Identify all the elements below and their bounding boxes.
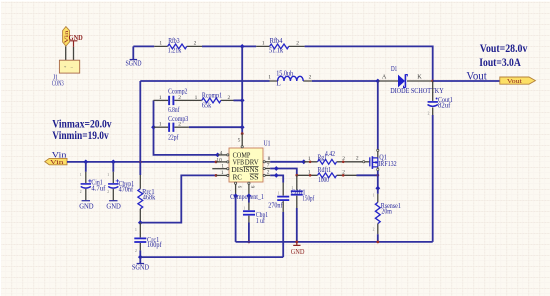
wire comp rail: [241, 46, 243, 133]
svg-text:Rcomp1: Rcomp1: [202, 91, 223, 99]
node Cin1 junction: [83, 159, 88, 164]
svg-text:1: 1: [262, 41, 265, 47]
node RC wire end: [215, 174, 218, 177]
svg-text:2: 2: [356, 155, 359, 161]
node Rdft1 left junction: [295, 174, 298, 177]
pin 8 (DRV): [263, 161, 265, 163]
wire switch-node row: [140, 80, 269, 82]
wire Rfb4 to Vout rail: [305, 46, 433, 81]
wire SGND row bottom: [140, 256, 283, 258]
capacitor Cout1 (electrolytic): [428, 81, 454, 115]
wire pin2 to Css: [270, 175, 283, 182]
wire Rfb3 to Rfb4: [202, 45, 256, 47]
power port GND at J1 (red): [69, 33, 84, 47]
svg-text:DIODE SCHOTTKY: DIODE SCHOTTKY: [390, 87, 444, 95]
connector J1 pins: [66, 46, 74, 60]
port Vout: [500, 77, 536, 85]
svg-text:Vin: Vin: [50, 160, 64, 166]
svg-text:GND: GND: [79, 201, 94, 210]
svg-text:2: 2: [178, 95, 181, 101]
wire RC pin run: [140, 175, 216, 222]
svg-text:RC: RC: [233, 172, 242, 181]
capacitor Cbyp1 470nf: [108, 162, 134, 200]
ground GND under Cin1: [79, 201, 94, 211]
wire Rdft1 to source rail: [357, 174, 378, 176]
capacitor Cbp1 1uf: [243, 196, 268, 242]
svg-text:4.7uf: 4.7uf: [91, 184, 106, 192]
node rail row2 junction: [240, 125, 245, 130]
tiny pin marks: [80, 112, 430, 253]
power port SGND (top left): [126, 46, 142, 67]
svg-text:CON3: CON3: [52, 80, 64, 88]
svg-text:468k: 468k: [143, 194, 156, 202]
svg-text:1000: 1000: [318, 176, 329, 184]
svg-text:2: 2: [267, 170, 270, 176]
svg-text:6.8nf: 6.8nf: [168, 106, 180, 114]
pin 5 (top): [241, 134, 243, 146]
svg-text:+: +: [64, 64, 67, 69]
node rail/RC wire junction: [138, 220, 143, 225]
svg-text:2: 2: [107, 190, 109, 194]
wire inductor to diode: [312, 80, 378, 82]
power port GND (red, bottom): [291, 242, 305, 256]
resistor Rrc1 468k: [138, 175, 156, 223]
svg-text:D1: D1: [391, 65, 397, 73]
svg-text:L: L: [276, 79, 280, 87]
wire Rcomp1 to rail: [234, 99, 243, 101]
pin 4: [218, 154, 227, 156]
capacitor Ccomp3 22pf: [154, 115, 189, 141]
node Vin/rail crossing junction: [139, 161, 142, 164]
node rail row1 junction: [240, 98, 245, 103]
svg-text:65k: 65k: [202, 102, 212, 110]
node pin2 vertex: [274, 173, 279, 178]
wire PGND bottom rail: [236, 241, 433, 243]
svg-text:SGND: SGND: [132, 264, 149, 271]
port J1 top (vertical): [63, 27, 71, 46]
node pin9 wire end: [246, 193, 251, 198]
svg-text:2: 2: [428, 112, 430, 116]
resistor Rcomp1 65k: [195, 91, 234, 109]
svg-text:270nf: 270nf: [268, 201, 283, 209]
op-amp U1 (PWM controller Component_1): [229, 138, 270, 201]
node Cdft1 bottom junction: [295, 241, 298, 244]
wire pin8 to Rg1: [270, 161, 304, 163]
wire Vout: [433, 80, 500, 82]
wire comp bracket: [154, 100, 218, 154]
svg-text:470nf: 470nf: [119, 186, 134, 194]
svg-text:Iout=3.0A: Iout=3.0A: [479, 56, 521, 69]
svg-text:4: 4: [220, 150, 223, 156]
svg-text:2: 2: [373, 228, 375, 232]
svg-text:51.1k: 51.1k: [269, 47, 283, 55]
svg-text:U1: U1: [264, 138, 271, 147]
diode D1 DIODE SCHOTTKY: [378, 65, 443, 95]
pin 10: [216, 161, 227, 163]
node pin4 wire end: [215, 152, 220, 157]
svg-text:1: 1: [243, 206, 245, 210]
svg-text:82uf: 82uf: [438, 102, 451, 110]
pin 9 (bottom): [248, 182, 250, 184]
pin 2 (SS): [263, 174, 265, 176]
svg-text:15.0uh: 15.0uh: [276, 70, 293, 78]
svg-text:1: 1: [135, 228, 137, 232]
svg-text:Rfb3: Rfb3: [168, 37, 180, 45]
svg-text:Vin: Vin: [52, 149, 67, 159]
capacitor Cdft1 150pf: [291, 175, 315, 242]
wire pin7 to sense filter: [270, 169, 297, 176]
resistor Rfb4: [256, 37, 304, 55]
svg-text:1.21k: 1.21k: [168, 47, 182, 55]
svg-text:5: 5: [238, 138, 241, 144]
wire rail x140 upper: [139, 81, 141, 175]
svg-text:2: 2: [80, 190, 82, 194]
svg-text:2: 2: [296, 41, 299, 47]
inductor L 15.0uh: [268, 70, 312, 88]
node SGND junction: [138, 255, 143, 260]
power port SGND (bottom): [132, 257, 149, 271]
pin 6 (bottom): [235, 182, 237, 184]
svg-text:2: 2: [309, 74, 312, 80]
svg-text:1 uf: 1 uf: [256, 217, 265, 225]
svg-text:A: A: [382, 73, 387, 80]
capacitor Css 270nf: [268, 183, 289, 258]
svg-text:Vout: Vout: [507, 78, 522, 85]
capacitor Cin1 4.7uf: [81, 162, 106, 200]
svg-text:1: 1: [159, 122, 162, 128]
svg-text:4.42: 4.42: [325, 150, 336, 158]
connector J1 CON3 body: [52, 60, 80, 87]
node pin6 wire end: [233, 193, 238, 198]
capacitor Crc1 100pf: [134, 223, 162, 251]
svg-text:IRF132: IRF132: [378, 160, 397, 168]
node Cbyp1 junction: [111, 159, 116, 164]
resistor Rsense1 20m: [373, 188, 402, 242]
transistor Q1 IRF132: [356, 81, 397, 188]
svg-text:1: 1: [373, 193, 375, 197]
svg-text:1: 1: [159, 41, 162, 47]
svg-text:7: 7: [267, 163, 270, 169]
svg-text:22pf: 22pf: [168, 133, 179, 141]
svg-text:1: 1: [195, 95, 198, 101]
wire Cout1 down to bottom rail: [432, 115, 434, 242]
svg-text:1: 1: [221, 164, 224, 170]
svg-text:GND: GND: [291, 248, 305, 256]
svg-text:1: 1: [221, 170, 224, 176]
node pin8 wire end: [301, 159, 306, 164]
svg-text:Vout: Vout: [466, 69, 487, 82]
svg-text:Vout=28.0v: Vout=28.0v: [480, 42, 528, 55]
junction node top rail: [240, 44, 245, 49]
pin 7 (ISNS): [263, 167, 265, 169]
port Vin: [45, 158, 67, 166]
svg-text:1: 1: [268, 74, 271, 80]
node Vout junction: [431, 80, 434, 83]
svg-text:Vinmin=19.0v: Vinmin=19.0v: [52, 129, 109, 142]
svg-text:100pf: 100pf: [147, 241, 162, 249]
node Cbp1 bottom junction: [248, 241, 251, 244]
node pin7 vertex: [274, 166, 279, 171]
svg-text:10: 10: [216, 157, 222, 163]
svg-text:Rdft1: Rdft1: [318, 166, 332, 174]
wire SGND to Rfb3: [133, 45, 154, 47]
svg-text:SGND: SGND: [126, 61, 142, 68]
node switch junction: [375, 79, 380, 84]
svg-text:2: 2: [178, 122, 181, 128]
node bracket row2 junction: [151, 125, 156, 130]
node pin5 wire end: [241, 132, 244, 135]
svg-text:1: 1: [159, 95, 162, 101]
wire Vin row: [67, 161, 216, 163]
svg-text:1: 1: [80, 173, 82, 177]
resistor Rfb3: [154, 37, 202, 55]
svg-text:1: 1: [107, 173, 109, 177]
pin 1 (unconnected stub): [212, 168, 227, 170]
svg-text:20m: 20m: [381, 207, 392, 215]
capacitor Ccomp2 6.8nf: [154, 87, 196, 114]
node Rsense1 bottom junction: [376, 241, 379, 244]
svg-text:2: 2: [228, 95, 231, 101]
svg-text:K: K: [417, 73, 422, 80]
svg-text:2: 2: [194, 41, 197, 47]
resistor Rg1 4.42: [304, 150, 363, 164]
svg-text:1: 1: [278, 191, 280, 195]
ground GND under Cbyp1: [106, 201, 121, 211]
node Rdft1 right junction: [376, 174, 379, 177]
svg-text:Rfb4: Rfb4: [270, 37, 283, 45]
svg-text:1: 1: [291, 186, 293, 190]
svg-text:GND: GND: [106, 201, 121, 210]
pin 1 (RC): [216, 174, 227, 176]
svg-text:150pf: 150pf: [302, 194, 314, 202]
node pin10 wire end: [215, 161, 218, 164]
svg-text:2: 2: [135, 249, 137, 253]
wire pin6 down to PGND rail: [235, 196, 237, 242]
resistor Rdft1 1000: [298, 166, 357, 184]
wire Ccomp3 to rail: [189, 126, 242, 128]
node source wire end: [375, 186, 380, 191]
svg-text:8: 8: [268, 156, 271, 162]
